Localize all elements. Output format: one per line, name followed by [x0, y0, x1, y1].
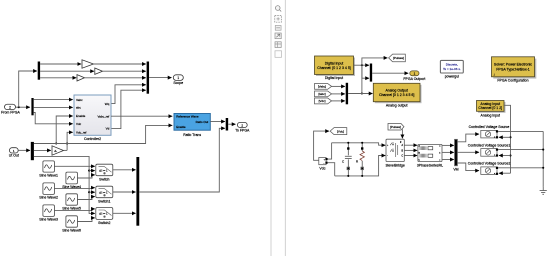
switch Switch2 — [96, 208, 113, 226]
from tag Vdc2 — [315, 98, 332, 104]
svg-text:Wq: Wq — [105, 102, 110, 106]
wire SW6 to Switch2 — [77, 218, 94, 222]
block Analog Input — [477, 101, 506, 118]
wire RL a to VM — [442, 144, 454, 146]
svg-text:Controlled Voltage Source2: Controlled Voltage Source2 — [468, 161, 511, 165]
svg-text:From FPGA: From FPGA — [1, 110, 20, 114]
gain K — [52, 146, 64, 155]
wire CVS3 plus to rail — [498, 167, 543, 169]
svg-text:Analog Output: Analog Output — [385, 89, 407, 93]
svg-text:Vd: Vd — [106, 127, 110, 131]
svg-text:Enable: Enable — [176, 125, 186, 129]
svg-text:Solver: Power Electronic: Solver: Power Electronic — [494, 63, 532, 67]
demux D3 — [31, 142, 34, 160]
controlled voltage source CVS2 — [468, 143, 511, 156]
node on enable net — [55, 142, 57, 144]
wire Iabc to mux5 — [332, 93, 345, 95]
svg-text:1: 1 — [177, 76, 179, 80]
block 3PhaseSeriesRL — [417, 144, 443, 167]
ground — [540, 187, 547, 194]
svg-text:Vdc: Vdc — [319, 166, 325, 170]
svg-text:Enable: Enable — [76, 114, 86, 118]
node g1 — [542, 149, 544, 151]
block Analog Output — [373, 83, 421, 107]
svg-text:Switch1: Switch1 — [98, 200, 110, 204]
wire VM to CVS1 — [457, 134, 479, 142]
wire DI out — [354, 64, 370, 66]
svg-text:Analog output: Analog output — [386, 104, 408, 108]
svg-text:Vabc_ref: Vabc_ref — [97, 114, 109, 118]
wire feedback to mux3 — [139, 128, 225, 192]
svg-text:u2 >= 1: u2 >= 1 — [99, 191, 108, 194]
wire Wq to mux — [111, 85, 146, 104]
wire Analog Input down — [504, 105, 511, 173]
block Digital Input — [315, 56, 356, 80]
controlled voltage source CVS3 — [468, 161, 511, 175]
svg-text:Vdc_ref: Vdc_ref — [76, 131, 87, 135]
wire Vdc minus to bottom rail — [328, 163, 335, 176]
svg-text:Sine Wave3: Sine Wave3 — [39, 218, 58, 222]
svg-text:Scope: Scope — [173, 81, 183, 85]
svg-text:R: R — [356, 160, 359, 164]
node ctl2 — [88, 191, 90, 193]
node c-top — [347, 142, 349, 144]
wire Vdc meas to goto — [314, 131, 329, 160]
svg-text:Sine Wave2: Sine Wave2 — [39, 196, 58, 200]
svg-text:Discrete,: Discrete, — [446, 63, 458, 67]
wire CVS2 minus to ai — [499, 155, 511, 157]
wire SW2 to Switch1 — [54, 187, 94, 190]
node junction — [18, 106, 20, 108]
resistor R — [356, 143, 364, 176]
wire Vabc to mux5 — [332, 85, 345, 87]
wire SW3 to Switch2 — [54, 209, 94, 211]
wire Vdc plus to top rail — [328, 143, 332, 159]
svg-text:[Vdc]: [Vdc] — [319, 99, 326, 103]
icon pan — [275, 26, 281, 31]
svg-text:Reference Wave: Reference Wave — [176, 115, 199, 119]
icon export — [275, 33, 281, 39]
svg-text:Controlled Voltage Source: Controlled Voltage Source — [469, 125, 510, 129]
wire to gain1 — [40, 63, 81, 65]
mux VM — [453, 139, 458, 171]
pin Vdc plus — [325, 158, 327, 160]
icon grid — [275, 42, 281, 48]
from tag Vabc — [315, 84, 332, 90]
gain G2 — [95, 68, 103, 74]
wire demux3 out3 to switches control — [34, 156, 95, 213]
sine wave Sine Wave5 — [62, 194, 81, 211]
svg-text:↓: ↓ — [493, 72, 495, 76]
wire DI to goto Pulses — [362, 58, 388, 65]
svg-text:powergui: powergui — [445, 75, 459, 79]
node r-top — [361, 142, 363, 144]
svg-text:Channel: [0 1 2 3 4 5]: Channel: [0 1 2 3 4 5] — [317, 66, 350, 70]
wire to Vdc port — [34, 113, 73, 124]
subsystem Controller2 — [74, 95, 111, 141]
svg-text:C: C — [342, 160, 345, 164]
wire RL c to VM — [442, 159, 454, 161]
node on vdcref net — [66, 142, 68, 144]
wire to abc port — [34, 106, 73, 108]
wire VM to CVS3 — [457, 163, 479, 171]
wire bridge C to RL — [404, 155, 417, 157]
svg-text:u2 >= 1: u2 >= 1 — [99, 169, 108, 172]
wire Switch2 to mux2 — [113, 212, 136, 214]
svg-text:FPGA Configuration: FPGA Configuration — [497, 79, 528, 83]
node g2 — [542, 167, 544, 169]
node DI — [361, 64, 363, 66]
svg-text:Digital Input: Digital Input — [325, 61, 344, 65]
goto tag Vdc — [330, 128, 347, 135]
sine wave Sine Wave2 — [39, 183, 58, 200]
node r-bot — [361, 175, 363, 177]
svg-text:Analog Input: Analog Input — [480, 102, 500, 106]
svg-text:abc: abc — [76, 106, 81, 110]
wire mux to Scope — [149, 77, 171, 79]
wire Vabc_ref to Ratio Trans — [111, 115, 172, 117]
toolbar divider right edge — [284, 0, 286, 256]
wire RL b to VM — [442, 151, 454, 153]
mux M2 — [136, 157, 139, 226]
svg-text:-K-: -K- — [54, 151, 57, 153]
wire SW1 to Switch — [54, 165, 94, 167]
goto tag Pulses — [389, 54, 406, 62]
wire gain2 to mux — [103, 70, 146, 72]
svg-text:Sine Wave6: Sine Wave6 — [62, 228, 81, 232]
wire Pulses to bridge gate — [401, 129, 403, 138]
wire to gain3 — [40, 77, 76, 79]
icon square — [275, 51, 282, 58]
svg-text:u2 >= 1: u2 >= 1 — [99, 213, 108, 216]
wire to gain K — [34, 149, 51, 151]
wire gain1 to mux — [94, 63, 146, 65]
wire Ut Out to demux3 — [18, 149, 30, 151]
outport FPGA Outport — [403, 71, 425, 81]
inport From FPGA — [1, 104, 20, 114]
svg-text:Ut Out: Ut Out — [9, 154, 19, 158]
block FPGA Configuration — [492, 57, 537, 83]
outport To FPGA — [235, 122, 250, 132]
wire gain K up — [64, 149, 68, 151]
node ai1 — [509, 136, 511, 138]
mux M1 — [147, 62, 149, 94]
sine wave Sine Wave3 — [39, 205, 58, 222]
sine wave Sine Wave4 — [62, 172, 81, 189]
wire VM to CVS2 — [457, 151, 479, 153]
svg-text:FPGA Outport: FPGA Outport — [403, 77, 425, 81]
svg-text:Sine Wave1: Sine Wave1 — [39, 173, 58, 177]
wire Vdc to mux5 — [332, 100, 345, 102]
svg-text:Ratio Trans: Ratio Trans — [183, 133, 201, 137]
svg-text:Analog input: Analog input — [481, 113, 500, 117]
icon fit view — [275, 16, 282, 23]
wire Vdc_ref from gain — [67, 132, 73, 150]
pin Vdc minus — [325, 162, 327, 164]
wire DI down to AO net — [361, 65, 363, 93]
svg-text:Vdc: Vdc — [76, 122, 82, 126]
wire From FPGA to demux — [16, 106, 30, 108]
svg-text:1: 1 — [13, 149, 15, 153]
wire enable net horizontal — [34, 125, 172, 143]
gain G3 — [77, 75, 85, 81]
inport Ut Out — [9, 148, 19, 158]
block powergui — [440, 60, 463, 78]
switch Switch1 — [96, 186, 113, 203]
wire ctl1 — [89, 170, 95, 172]
voltage measurement Vdc — [319, 158, 326, 171]
svg-text:[Pulses]: [Pulses] — [390, 125, 401, 129]
svg-text:[Iabc]: [Iabc] — [318, 92, 326, 96]
capacitor C — [342, 143, 352, 176]
switch Switch — [96, 164, 113, 181]
svg-text:Controller2: Controller2 — [84, 137, 101, 141]
wire to gain2 — [40, 70, 94, 72]
outport Scope — [173, 75, 183, 85]
svg-text:FPGA Type:NetBox-1: FPGA Type:NetBox-1 — [496, 67, 529, 71]
svg-text:Switch2: Switch2 — [98, 221, 110, 225]
wire mux5 to Analog Output — [348, 93, 372, 95]
svg-text:Ts = 1e-06 s.: Ts = 1e-06 s. — [443, 67, 461, 71]
svg-text:2: 2 — [9, 105, 11, 109]
wire CVS3 minus to ai — [499, 172, 511, 174]
wire Ratio Out to mux3 — [210, 121, 225, 123]
icon zoom — [275, 6, 281, 12]
from tag Pulses2 — [388, 124, 404, 131]
wire Enable from below — [56, 116, 72, 144]
svg-text:Digital input: Digital input — [325, 76, 343, 80]
wire up to demux1 — [19, 71, 37, 107]
wire Switch1 to mux2 — [113, 191, 136, 193]
svg-text:c: c — [439, 160, 440, 162]
svg-text:Channel [0 1 2 3 4 5 6]: Channel [0 1 2 3 4 5 6] — [379, 93, 414, 97]
node DI-AO — [361, 92, 363, 94]
wire CVS1 minus to ai — [499, 136, 511, 138]
svg-text:Channel [0 1 2]: Channel [0 1 2] — [478, 106, 502, 110]
wire CVS2 plus to rail — [498, 149, 543, 151]
svg-text:Controlled Voltage Source1: Controlled Voltage Source1 — [468, 143, 511, 147]
mux M3 — [226, 118, 228, 131]
wire to Vabc port — [34, 99, 73, 101]
wire CVS1 plus to rail — [498, 130, 543, 132]
wire ground rail — [542, 131, 544, 187]
wire bridge A to RL — [404, 144, 417, 146]
node ai2 — [509, 154, 511, 156]
node c-bot — [347, 175, 349, 177]
wire SW5 to Switch1 — [77, 197, 94, 200]
toolbar divider left edge — [270, 0, 272, 256]
wire ctl2 — [89, 191, 95, 193]
demux D1 — [38, 62, 40, 80]
mux M5 — [346, 83, 348, 105]
wire bridge B to RL — [404, 149, 417, 151]
svg-text:Vabc: Vabc — [76, 98, 83, 102]
node ctl1 — [88, 170, 90, 172]
svg-text:Ratio Out: Ratio Out — [196, 120, 209, 124]
wire mux3 to To FPGA — [228, 123, 235, 125]
svg-text:Sine Wave5: Sine Wave5 — [62, 206, 81, 210]
gain G1 — [82, 60, 94, 68]
bridge 3levelBridge — [386, 139, 405, 167]
wire SW4 to Switch — [77, 175, 94, 178]
demux D2 — [31, 98, 33, 115]
svg-text:[Vabc]: [Vabc] — [318, 85, 326, 89]
wire Vd to mux — [111, 90, 146, 128]
svg-text:[Vdc]: [Vdc] — [337, 129, 344, 133]
svg-text:3PhaseSeriesRL: 3PhaseSeriesRL — [417, 163, 443, 167]
wire bottom rail — [335, 156, 386, 176]
from tag Iabc — [315, 91, 332, 97]
svg-text:To FPGA: To FPGA — [235, 129, 250, 133]
wire mux4 to FPGA Outport — [372, 72, 408, 74]
svg-text:[Pulses]: [Pulses] — [393, 56, 404, 60]
svg-text:3levelBridge: 3levelBridge — [386, 163, 405, 167]
sine wave Sine Wave6 — [62, 216, 81, 233]
wire gain3 to mux — [85, 77, 146, 79]
wire DI to mux4 lower — [362, 65, 369, 78]
svg-text:VM: VM — [453, 167, 458, 171]
controlled voltage source CVS1 — [469, 125, 510, 138]
svg-text:Switch: Switch — [99, 178, 109, 182]
svg-text:2: 2 — [241, 123, 243, 127]
wire Switch to mux2 — [113, 169, 136, 171]
sine wave Sine Wave1 — [39, 161, 58, 177]
subsystem Ratio Trans — [174, 114, 210, 137]
mux M4 — [370, 64, 372, 82]
wire top rail — [332, 143, 386, 145]
